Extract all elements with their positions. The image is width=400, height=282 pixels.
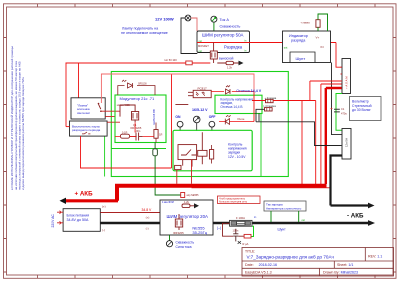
connector NE555 small — [181, 193, 199, 198]
svg-text:ШИМ регулятор 50А: ШИМ регулятор 50А — [202, 33, 244, 38]
wire black minus klemma net — [256, 109, 342, 145]
svg-text:Разрядка: Разрядка — [224, 45, 243, 50]
diode D1 SR5100 — [118, 80, 156, 95]
modulator green box G2 — [115, 95, 166, 143]
wire red relay drop — [191, 160, 193, 184]
potentiometer duty — [166, 235, 194, 249]
arrow black small — [368, 203, 375, 209]
wire black indicator to lower connector — [332, 63, 343, 135]
svg-text:Скважность: Скважность — [220, 24, 241, 28]
green control box G3 — [173, 130, 252, 171]
wire red drop to lamp box — [78, 63, 80, 98]
svg-text:(-): (-) — [146, 226, 149, 230]
MOSFET Q1 modulator — [120, 105, 142, 130]
svg-text:Амперметра стрелочного: Амперметра стрелочного — [266, 206, 302, 210]
terminal + klemma — [265, 96, 277, 103]
svg-text:out: out — [199, 50, 203, 53]
diode D2 cutoff — [211, 86, 262, 95]
wire red pause switch out — [107, 121, 120, 123]
svg-text:12V - 10.5V: 12V - 10.5V — [228, 155, 246, 159]
wire green under modulator — [112, 148, 167, 150]
switch ON — [175, 115, 183, 131]
svg-text:470u: 470u — [341, 111, 347, 115]
svg-text:1.2k: 1.2k — [184, 200, 190, 204]
terminal - klemma — [263, 104, 276, 111]
title block — [242, 248, 394, 277]
wire lamp loop — [181, 18, 197, 54]
svg-text:12V 100W: 12V 100W — [155, 17, 174, 22]
svg-text:100n: 100n — [233, 228, 239, 232]
svg-text:0.1R: 0.1R — [122, 130, 128, 134]
svg-text:C1: C1 — [341, 107, 345, 111]
svg-text:34.8V до 50А: 34.8V до 50А — [67, 218, 89, 222]
MOSFET Q3 pwm20 — [173, 214, 184, 235]
svg-text:Модулятор 21с .71: Модулятор 21с .71 — [120, 96, 156, 101]
svg-text:OFF: OFF — [209, 115, 216, 119]
svg-text:out: out — [302, 219, 306, 222]
resistor R ballast top right — [301, 20, 321, 28]
svg-text:(+): (+) — [102, 205, 106, 209]
green note box G4 — [215, 95, 262, 113]
red warning box — [218, 196, 261, 204]
svg-text:Шунт: Шунт — [296, 56, 306, 61]
capacitor C1 470u — [331, 107, 348, 115]
wire pink bus — [101, 74, 254, 103]
svg-text:SR5100: SR5100 — [138, 83, 147, 86]
wire red bus y42.5 — [197, 42, 336, 44]
wire red modulator bottom — [115, 122, 154, 136]
wire red pause switch to modulator — [81, 136, 172, 168]
svg-text:апр NE555: апр NE555 — [187, 194, 200, 197]
label R uA — [238, 241, 249, 246]
svg-text:MOSFET: MOSFET — [198, 44, 209, 48]
svg-text:ON: ON — [175, 115, 181, 119]
wire opto left stubs — [188, 92, 193, 95]
svg-text:(-): (-) — [102, 228, 105, 232]
wire dark red stub above ON — [175, 104, 188, 106]
capacitor C modulator — [130, 129, 143, 141]
svg-text:4 ква ФХМ: 4 ква ФХМ — [162, 201, 174, 204]
svg-text:Лампу подключать на: Лампу подключать на — [122, 27, 158, 31]
svg-text:разряда: разряда — [291, 39, 306, 43]
wire green fuse right — [251, 226, 254, 236]
note text left margin — [10, 46, 25, 190]
PWM regulator 50A box U2 — [197, 31, 250, 53]
svg-text:тип 50 100: тип 50 100 — [164, 58, 177, 62]
svg-text:разрядного периода: разрядного периода — [72, 128, 101, 132]
green frame G1 — [111, 72, 288, 177]
svg-text:out: out — [284, 46, 288, 50]
svg-text:Sheet: 1/1: Sheet: 1/1 — [337, 263, 353, 267]
svg-text:PC817: PC817 — [198, 86, 208, 90]
wire green lamp resistor — [318, 14, 328, 31]
resistor R fuse — [244, 234, 251, 238]
svg-text:(+): (+) — [146, 215, 150, 219]
svg-text:Индикатор: Индикатор — [289, 34, 308, 38]
connector CN2 voltmeter — [341, 129, 352, 160]
svg-text:Шунт: Шунт — [278, 227, 287, 231]
wire thick black bus minus — [100, 222, 368, 224]
wire green shunt taps — [271, 211, 299, 222]
svg-text:V+: V+ — [316, 35, 320, 39]
wire dark green timing — [155, 143, 181, 196]
svg-text:EasyEDA V5.1.3: EasyEDA V5.1.3 — [245, 270, 272, 274]
wire arrow gate drive — [217, 61, 243, 66]
wire fuse loop — [223, 223, 245, 236]
discharge indicator box U3 — [283, 31, 331, 63]
svg-text:12в-5А: 12в-5А — [344, 138, 348, 147]
meter gauge small — [193, 116, 200, 131]
svg-text:не отключаемое освещение: не отключаемое освещение — [121, 31, 168, 35]
svg-text:- АКБ: - АКБ — [347, 212, 364, 219]
wire thick red bus — [117, 186, 327, 201]
resistor R modulator 0.1R — [120, 130, 129, 138]
wire black relay right — [258, 113, 260, 121]
power supply box PS1 — [63, 209, 100, 232]
svg-text:+ А Л А М: + А Л А М — [345, 76, 349, 89]
svg-text:Блок питания: Блок питания — [67, 213, 90, 217]
connector CN1 lamp — [341, 59, 351, 94]
svg-text:Вольтметр: Вольтметр — [352, 99, 369, 103]
svg-text:Ток А: Ток А — [220, 18, 230, 22]
svg-text:R μА: R μА — [243, 242, 249, 246]
arrow black AKB minus — [368, 220, 375, 226]
svg-text:REV: 1.1: REV: 1.1 — [368, 255, 382, 259]
wire green inner left — [104, 132, 106, 177]
svg-text:выносной: выносной — [219, 56, 234, 60]
svg-text:света вкл: света вкл — [77, 111, 90, 115]
svg-text:Drawn By: Mihail2623: Drawn By: Mihail2623 — [323, 270, 358, 274]
resistor R 1.2k pwm20 — [182, 200, 190, 207]
connector small G3 bottom — [175, 165, 181, 183]
wire thick black voltmeter minus — [331, 156, 369, 206]
wire dark red 34.8V — [100, 212, 160, 214]
resistor R gate 1.2k — [226, 61, 234, 69]
discharge pause switch box S2 — [70, 121, 108, 136]
resistor R modulator right — [154, 123, 163, 143]
ammeter PA1 — [211, 16, 240, 28]
wire red plus klemma net — [273, 81, 342, 186]
svg-text:1.2k: 1.2k — [227, 66, 233, 70]
ampermeter note box — [264, 201, 306, 211]
svg-text:220V AC: 220V AC — [51, 214, 55, 228]
wire thick red to connector — [326, 88, 342, 184]
svg-text:ШИМ 08 ВВ: ШИМ 08 ВВ — [152, 109, 156, 124]
svg-text:+ лампа: + лампа — [301, 22, 311, 25]
wire green G4 drop — [260, 113, 262, 176]
PWM regulator 20A box U7 — [160, 200, 213, 235]
svg-text:F 100А: F 100А — [236, 216, 245, 220]
note lamp wiring — [121, 27, 168, 36]
svg-text:34.8 V: 34.8 V — [142, 208, 153, 212]
capacitor C fuse 100n — [233, 228, 239, 241]
svg-text:Date: 2018-02-16: Date: 2018-02-16 — [245, 263, 277, 267]
svg-text:Сила тока: Сила тока — [176, 245, 192, 249]
wire ammeter to PWM box — [213, 23, 215, 31]
svg-text:Реле: Реле — [238, 117, 245, 121]
fuse F discharge line — [66, 58, 211, 65]
MOSFET Q2 discharge — [210, 43, 217, 64]
wire red mid drop — [171, 74, 173, 168]
diode D3 relay — [219, 115, 254, 124]
svg-text:Стрелочный: Стрелочный — [352, 104, 372, 108]
switch OFF — [209, 115, 216, 131]
PC817 optocoupler U6 — [193, 86, 211, 97]
svg-text:+ АКБ: + АКБ — [75, 191, 94, 198]
voltmeter note box — [350, 97, 382, 121]
wire thin red under bus — [192, 187, 331, 189]
svg-text:Отсечка 14,4 V: Отсечка 14,4 V — [236, 89, 262, 93]
wire red left drop — [65, 63, 67, 127]
svg-text:IN: IN — [321, 45, 324, 49]
resistor R relay divider — [210, 145, 214, 164]
wire lamp right pink — [191, 18, 197, 31]
svg-text:35-25Гц: 35-25Гц — [192, 230, 207, 235]
svg-text:16/5-12 V: 16/5-12 V — [192, 108, 208, 112]
halogen lamp switch box S1 — [71, 98, 105, 119]
fuse F100A — [230, 216, 253, 226]
svg-text:больших перегрев сеть: больших перегрев сеть — [219, 199, 248, 203]
svg-text:TITLE:: TITLE: — [245, 250, 255, 254]
lamp EL1 12V 100W — [155, 15, 191, 21]
arrow thick red AKB plus — [60, 198, 119, 204]
svg-text:(–): (–) — [217, 226, 221, 230]
svg-text:Отсечка 14,4 В: Отсечка 14,4 В — [220, 105, 242, 109]
svg-text:1R: 1R — [159, 132, 162, 136]
wire red relay feed — [252, 92, 266, 122]
arrow gate pwm20 — [190, 203, 199, 208]
relay K1 — [178, 132, 207, 166]
capacitor C dark green timing — [153, 149, 158, 156]
pin AC1 — [57, 211, 63, 214]
wire red lamp switch out — [102, 111, 121, 116]
svg-text:V:7_Зарядно-разрядное для акб: V:7_Зарядно-разрядное для акб до 70Ач — [247, 255, 335, 260]
svg-text:до 30 Вольт: до 30 Вольт — [352, 108, 371, 112]
pin AC2 — [57, 221, 63, 224]
svg-text:ШИМ регулятор 20А: ШИМ регулятор 20А — [167, 214, 209, 219]
wire green connector bottom — [336, 94, 342, 131]
svg-text:in: in — [254, 215, 257, 219]
label control 12V — [228, 143, 247, 159]
svg-text:и далее вывод переключателя ре: и далее вывод переключателя режимов рабо… — [21, 76, 25, 190]
svg-text:IRF3205: IRF3205 — [173, 231, 184, 235]
wire red into pause switch — [66, 126, 70, 128]
wire red to connector top — [336, 43, 342, 68]
